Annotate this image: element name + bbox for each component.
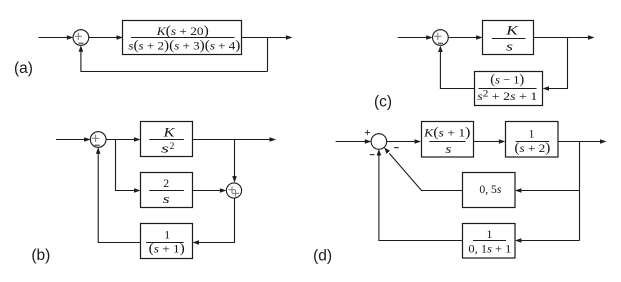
svg-text:s(s + 2)(s + 3)(s + 4): s(s + 2)(s + 3)(s + 4): [128, 38, 240, 54]
block Gd3: 0,5s: [463, 173, 516, 208]
wire: input of diagram (a): [38, 35, 73, 40]
svg-text:s: s: [161, 141, 169, 155]
wire: feedback of (c): [438, 46, 474, 89]
wire S_c to block Gc1: [448, 35, 483, 40]
svg-text:K(s + 20): K(s + 20): [156, 23, 209, 39]
svg-text:K: K: [505, 24, 519, 38]
wire tap to block Gd4: [515, 238, 580, 243]
wire S_d to block Gd1: [387, 139, 422, 144]
node: tap to block Gb2 (b): [116, 140, 141, 193]
block Gb2: 2/s: [141, 173, 193, 208]
value label Gc2 numerator (s-1): [490, 71, 524, 87]
svg-text:K: K: [162, 126, 176, 140]
fraction bar Gb1: [149, 139, 184, 141]
svg-text:(s + 2): (s + 2): [514, 140, 550, 156]
svg-text:1: 1: [529, 127, 535, 141]
fraction bar Gd4: [473, 240, 506, 242]
wire Gd3 to S_d (diagonal): [384, 147, 463, 190]
fraction bar Gc1: [492, 38, 526, 40]
value label Gb2 numerator 2: [163, 176, 169, 190]
wire: output of diagram (a): [242, 35, 293, 40]
fraction bar Ga: [131, 37, 235, 39]
label (b): [31, 247, 50, 264]
value label Gd4 numerator 1: [487, 227, 493, 241]
block Gd4: 1/(0,1s+1): [463, 224, 516, 259]
label (a): [14, 60, 33, 77]
wire: input of diagram (c): [398, 35, 433, 40]
value label Gd2 numerator 1: [529, 127, 535, 141]
value label Gb2 denominator s: [163, 192, 170, 206]
svg-text:(s − 1): (s − 1): [490, 71, 524, 87]
svg-text:0, 1s + 1: 0, 1s + 1: [468, 242, 511, 256]
svg-text:2: 2: [170, 142, 175, 152]
svg-text:0, 5s: 0, 5s: [479, 182, 501, 196]
block Ga: K(s+20)/(s(s+2)(s+3)(s+4)): [123, 21, 242, 55]
fraction bar Gb3: [146, 242, 184, 244]
fraction bar Gc2: [479, 88, 537, 90]
block Gc1: K/s: [483, 21, 534, 55]
svg-text:2: 2: [163, 176, 169, 190]
wire: input of diagram (b): [56, 137, 91, 142]
value label Gd3: 0,5s: [479, 182, 501, 196]
svg-text:K(s + 1): K(s + 1): [423, 124, 470, 140]
fraction bar Gd2: [516, 141, 550, 143]
value label Gb3 denominator (s+1): [149, 241, 185, 257]
svg-text:1: 1: [164, 227, 170, 241]
wire: output of diagram (c): [534, 35, 595, 40]
wire tap to block Gd3: [515, 188, 580, 193]
svg-text:s: s: [163, 192, 170, 206]
value label Gd1 numerator K(s+1): [423, 124, 470, 140]
wire: output of diagram (d): [558, 139, 607, 144]
node: output tap vertical of (d): [579, 142, 581, 241]
value label Gd4 denominator 0,1s+1: [468, 242, 511, 256]
wire: feedback of (a): [79, 45, 268, 71]
summing junction S_d: [371, 134, 387, 150]
svg-text:(s + 1): (s + 1): [149, 241, 185, 257]
block Gb1: K/s^2: [141, 122, 193, 157]
fraction bar Gd1: [429, 141, 465, 143]
block Gd1: K(s+1)/s: [422, 122, 474, 158]
svg-text:(b): (b): [31, 247, 50, 264]
block Gc2: (s-1)/(s^2+2s+1): [475, 72, 543, 106]
plus sign of S_c: [434, 33, 441, 40]
svg-text:(d): (d): [313, 247, 332, 264]
wire: feedback of (b): [96, 147, 141, 242]
value label Gc2 denominator s^2+2s+1: [477, 89, 537, 103]
value label Gc1 denominator s: [506, 39, 513, 53]
block Gb3: 1/(s+1): [141, 224, 193, 259]
value label Gc1 numerator K: [505, 24, 519, 38]
wire S_a to block Ga: [89, 35, 124, 40]
svg-text:1: 1: [487, 227, 493, 241]
wire: feedback of (d) bottom: [377, 149, 463, 241]
node: output tap of (a): [267, 38, 269, 72]
block Gd2: 1/(s+2): [506, 122, 559, 158]
wire Gd1 to Gd2: [474, 139, 506, 144]
minus sign of S_c: [438, 42, 443, 44]
node: output tap of (c): [543, 38, 568, 91]
value label Gd2 denominator (s+2): [514, 140, 550, 156]
label (c): [374, 94, 392, 111]
summing junction S_b1: [90, 132, 106, 148]
wire Gb2 to S_b2: [193, 188, 227, 193]
value label Gb1 denominator s^2: [161, 141, 175, 155]
plus sign of S_b1: [92, 135, 99, 142]
svg-text:(c): (c): [374, 94, 392, 111]
summing junction S_c: [433, 30, 449, 46]
summing junction S_a: [73, 30, 89, 46]
fraction bar Gb2: [149, 190, 184, 192]
plus sign at input of S_d: [365, 130, 370, 135]
minus sign of S_a: [78, 42, 83, 44]
value label Gb1 numerator K: [162, 126, 176, 140]
plus sign of S_a: [75, 33, 82, 40]
wire S_b1 to block Gb1: [106, 137, 141, 142]
wire S_b2 to block Gb3: [193, 198, 235, 245]
svg-text:s: s: [445, 142, 451, 156]
summing junction S_b2: [226, 183, 241, 198]
svg-text:s: s: [506, 39, 513, 53]
wire: input of diagram (d): [336, 139, 372, 144]
value label Ga denominator s(s+2)(s+3)(s+4): [128, 38, 240, 54]
plus sign of S_b2 (top input): [232, 190, 239, 197]
minus sign right of S_d: [394, 147, 399, 149]
plus sign of S_b2 (left input): [229, 186, 236, 193]
minus sign below-left of S_d: [370, 154, 375, 156]
value label Gb3 numerator 1: [164, 227, 170, 241]
minus sign of S_b1: [95, 144, 100, 146]
label (d): [313, 247, 332, 264]
wire: output of diagram (b): [193, 137, 277, 142]
value label Ga numerator K(s+20): [156, 23, 209, 39]
value label Gd1 denominator s: [445, 142, 451, 156]
svg-text:(a): (a): [14, 60, 33, 77]
node: tap to S_b2 (b): [232, 140, 237, 183]
